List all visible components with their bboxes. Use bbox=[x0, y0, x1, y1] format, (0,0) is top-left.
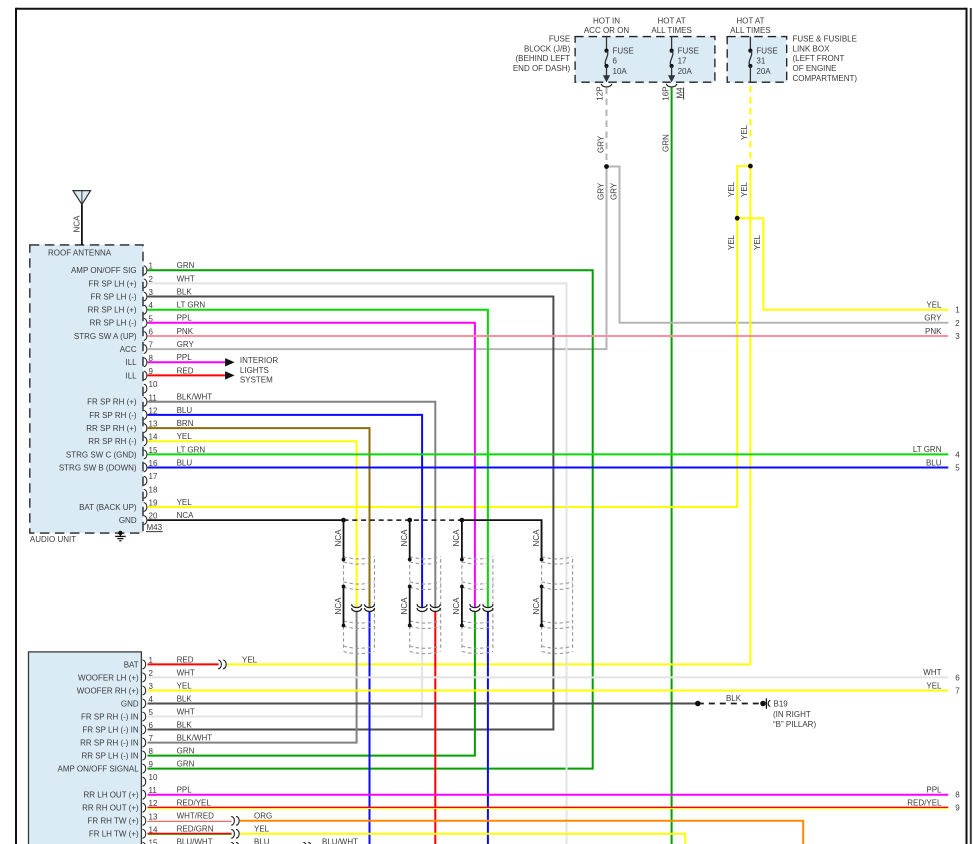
svg-text:RR SP LH (-): RR SP LH (-) bbox=[90, 319, 137, 328]
svg-text:FUSE & FUSIBLE: FUSE & FUSIBLE bbox=[793, 34, 857, 43]
svg-text:31: 31 bbox=[756, 57, 765, 66]
svg-text:NCA: NCA bbox=[452, 597, 461, 615]
svg-text:9: 9 bbox=[149, 367, 154, 376]
svg-text:BLU: BLU bbox=[177, 458, 193, 467]
svg-text:RED/YEL: RED/YEL bbox=[177, 799, 212, 808]
svg-text:6: 6 bbox=[613, 57, 618, 66]
svg-text:RR SP LH (+): RR SP LH (+) bbox=[88, 306, 137, 315]
svg-text:NCA: NCA bbox=[334, 529, 343, 547]
svg-text:RR RH OUT (+): RR RH OUT (+) bbox=[82, 804, 139, 813]
svg-text:RR SP LH (-) IN: RR SP LH (-) IN bbox=[81, 752, 138, 761]
svg-text:WHT/RED: WHT/RED bbox=[177, 812, 215, 821]
svg-text:7: 7 bbox=[149, 341, 154, 350]
svg-text:WOOFER RH (+): WOOFER RH (+) bbox=[77, 686, 139, 695]
svg-text:M43: M43 bbox=[147, 523, 163, 532]
svg-text:PPL: PPL bbox=[177, 353, 193, 362]
svg-text:FR SP LH (-) IN: FR SP LH (-) IN bbox=[82, 725, 139, 734]
svg-text:RED/GRN: RED/GRN bbox=[177, 825, 214, 834]
svg-text:GRY: GRY bbox=[177, 340, 195, 349]
svg-text:2: 2 bbox=[149, 275, 154, 284]
svg-text:17: 17 bbox=[149, 472, 158, 481]
svg-text:STRG SW A (UP): STRG SW A (UP) bbox=[74, 332, 137, 341]
svg-text:GRY: GRY bbox=[596, 182, 605, 200]
svg-text:GRY: GRY bbox=[609, 182, 618, 200]
svg-text:5: 5 bbox=[149, 314, 154, 323]
svg-text:ALL TIMES: ALL TIMES bbox=[651, 26, 691, 35]
svg-text:BAT (BACK UP): BAT (BACK UP) bbox=[79, 503, 137, 512]
svg-text:BRN: BRN bbox=[177, 419, 194, 428]
svg-text:AMP ON/OFF SIG: AMP ON/OFF SIG bbox=[71, 266, 137, 275]
svg-text:12: 12 bbox=[149, 406, 158, 415]
svg-text:COMPARTMENT): COMPARTMENT) bbox=[793, 74, 858, 83]
svg-text:6: 6 bbox=[149, 721, 154, 730]
svg-text:HOT AT: HOT AT bbox=[658, 16, 686, 25]
svg-text:(BEHIND LEFT: (BEHIND LEFT bbox=[516, 54, 571, 63]
svg-text:8: 8 bbox=[149, 747, 154, 756]
svg-text:NCA: NCA bbox=[400, 597, 409, 615]
svg-text:ACC: ACC bbox=[120, 345, 137, 354]
svg-text:GRY: GRY bbox=[924, 314, 942, 323]
svg-text:INTERIOR: INTERIOR bbox=[240, 356, 278, 365]
svg-text:YEL: YEL bbox=[740, 124, 749, 140]
svg-text:YEL: YEL bbox=[177, 498, 193, 507]
svg-text:5: 5 bbox=[955, 464, 960, 473]
svg-text:LT GRN: LT GRN bbox=[913, 445, 942, 454]
svg-text:8: 8 bbox=[149, 354, 154, 363]
svg-text:YEL: YEL bbox=[926, 681, 942, 690]
svg-text:YEL: YEL bbox=[242, 655, 258, 664]
svg-text:ILL: ILL bbox=[125, 371, 137, 380]
svg-text:GRN: GRN bbox=[177, 760, 195, 769]
svg-text:FR SP RH (-) IN: FR SP RH (-) IN bbox=[81, 712, 139, 721]
svg-text:AMP ON/OFF SIGNAL: AMP ON/OFF SIGNAL bbox=[57, 765, 139, 774]
svg-text:YEL: YEL bbox=[177, 432, 193, 441]
svg-text:3: 3 bbox=[149, 288, 154, 297]
svg-text:ROOF ANTENNA: ROOF ANTENNA bbox=[48, 249, 112, 258]
svg-text:7: 7 bbox=[149, 734, 154, 743]
svg-text:(LEFT FRONT: (LEFT FRONT bbox=[793, 54, 845, 63]
svg-text:LT GRN: LT GRN bbox=[177, 301, 206, 310]
svg-text:YEL: YEL bbox=[926, 301, 942, 310]
svg-text:BLK/WHT: BLK/WHT bbox=[177, 393, 213, 402]
svg-text:BLU: BLU bbox=[926, 458, 942, 467]
svg-text:FUSE: FUSE bbox=[678, 46, 699, 55]
svg-text:GRN: GRN bbox=[662, 134, 671, 152]
svg-text:FR SP RH (+): FR SP RH (+) bbox=[87, 398, 137, 407]
svg-text:RR SP RH (+): RR SP RH (+) bbox=[86, 424, 137, 433]
svg-text:NCA: NCA bbox=[532, 597, 541, 615]
svg-text:6: 6 bbox=[955, 673, 960, 682]
svg-text:ILL: ILL bbox=[125, 358, 137, 367]
svg-text:RED/YEL: RED/YEL bbox=[907, 799, 942, 808]
svg-text:NCA: NCA bbox=[400, 529, 409, 547]
svg-text:PNK: PNK bbox=[925, 327, 942, 336]
svg-text:BLK: BLK bbox=[726, 694, 742, 703]
svg-text:PPL: PPL bbox=[177, 314, 193, 323]
svg-text:BLK/WHT: BLK/WHT bbox=[177, 734, 213, 743]
svg-text:1: 1 bbox=[955, 306, 960, 315]
svg-text:FR RH TW (+): FR RH TW (+) bbox=[88, 817, 140, 826]
svg-text:19: 19 bbox=[149, 499, 158, 508]
svg-text:15: 15 bbox=[149, 446, 158, 455]
svg-text:FR SP LH (+): FR SP LH (+) bbox=[89, 279, 137, 288]
svg-text:GND: GND bbox=[121, 699, 139, 708]
svg-text:6: 6 bbox=[149, 328, 154, 337]
svg-text:7: 7 bbox=[955, 687, 960, 696]
svg-text:NCA: NCA bbox=[532, 529, 541, 547]
svg-text:5: 5 bbox=[149, 708, 154, 717]
svg-text:13: 13 bbox=[149, 420, 158, 429]
svg-text:FR SP LH (-): FR SP LH (-) bbox=[91, 292, 137, 301]
svg-text:PNK: PNK bbox=[177, 327, 194, 336]
svg-text:BLU: BLU bbox=[254, 838, 270, 844]
svg-text:YEL: YEL bbox=[727, 234, 736, 250]
svg-text:LIGHTS: LIGHTS bbox=[240, 366, 269, 375]
svg-text:BLK: BLK bbox=[177, 694, 193, 703]
svg-text:END OF DASH): END OF DASH) bbox=[513, 64, 571, 73]
svg-text:BLK: BLK bbox=[177, 287, 193, 296]
svg-text:10: 10 bbox=[149, 380, 158, 389]
svg-text:(IN RIGHT: (IN RIGHT bbox=[773, 710, 811, 719]
svg-text:9: 9 bbox=[149, 760, 154, 769]
svg-text:YEL: YEL bbox=[740, 181, 749, 197]
svg-text:GRN: GRN bbox=[177, 747, 195, 756]
svg-text:17: 17 bbox=[678, 57, 687, 66]
svg-text:BLU/WHT: BLU/WHT bbox=[322, 838, 358, 844]
svg-text:20A: 20A bbox=[678, 67, 693, 76]
svg-text:2: 2 bbox=[955, 319, 960, 328]
svg-text:15: 15 bbox=[149, 838, 158, 844]
svg-text:YEL: YEL bbox=[753, 234, 762, 250]
svg-text:RR SP RH (-) IN: RR SP RH (-) IN bbox=[80, 739, 139, 748]
svg-text:16P: 16P bbox=[662, 86, 671, 100]
svg-text:12P: 12P bbox=[596, 86, 605, 100]
svg-text:BAT: BAT bbox=[124, 660, 139, 669]
svg-text:NCA: NCA bbox=[177, 511, 195, 520]
svg-text:YEL: YEL bbox=[254, 825, 270, 834]
svg-text:RR LH OUT (+): RR LH OUT (+) bbox=[83, 791, 139, 800]
svg-text:20A: 20A bbox=[756, 67, 771, 76]
svg-text:HOT IN: HOT IN bbox=[593, 16, 620, 25]
svg-text:WOOFER LH (+): WOOFER LH (+) bbox=[78, 673, 139, 682]
svg-text:ORG: ORG bbox=[254, 812, 272, 821]
svg-text:STRG SW C (GND): STRG SW C (GND) bbox=[66, 450, 137, 459]
svg-text:FR SP RH (-): FR SP RH (-) bbox=[89, 411, 137, 420]
svg-text:YEL: YEL bbox=[177, 681, 193, 690]
svg-text:10: 10 bbox=[149, 773, 158, 782]
svg-text:BLU: BLU bbox=[177, 406, 193, 415]
svg-text:NCA: NCA bbox=[72, 215, 81, 233]
svg-text:FUSE: FUSE bbox=[613, 46, 634, 55]
svg-text:YEL: YEL bbox=[727, 181, 736, 197]
svg-text:OF ENGINE: OF ENGINE bbox=[793, 64, 837, 73]
svg-text:4: 4 bbox=[149, 301, 154, 310]
svg-text:PPL: PPL bbox=[177, 786, 193, 795]
svg-text:HOT AT: HOT AT bbox=[736, 16, 764, 25]
svg-text:RR SP RH (-): RR SP RH (-) bbox=[88, 437, 137, 446]
svg-text:11: 11 bbox=[149, 393, 158, 402]
svg-text:FUSE: FUSE bbox=[756, 46, 777, 55]
svg-text:BLU/WHT: BLU/WHT bbox=[177, 838, 213, 844]
svg-text:FUSE: FUSE bbox=[549, 34, 570, 43]
svg-text:LT GRN: LT GRN bbox=[177, 445, 206, 454]
svg-text:ALL TIMES: ALL TIMES bbox=[730, 26, 770, 35]
svg-text:“B” PILLAR): “B” PILLAR) bbox=[773, 720, 816, 729]
svg-text:B19: B19 bbox=[774, 699, 789, 708]
svg-text:NCA: NCA bbox=[334, 597, 343, 615]
svg-text:9: 9 bbox=[955, 804, 960, 813]
svg-text:3: 3 bbox=[955, 332, 960, 341]
svg-text:16: 16 bbox=[149, 459, 158, 468]
svg-text:8: 8 bbox=[955, 791, 960, 800]
svg-text:SYSTEM: SYSTEM bbox=[240, 376, 273, 385]
svg-text:BLK: BLK bbox=[177, 720, 193, 729]
svg-text:GRY: GRY bbox=[596, 135, 605, 153]
svg-text:WHT: WHT bbox=[923, 668, 941, 677]
svg-text:WHT: WHT bbox=[177, 274, 195, 283]
svg-text:FR LH TW (+): FR LH TW (+) bbox=[89, 830, 139, 839]
svg-text:WHT: WHT bbox=[177, 668, 195, 677]
svg-text:RED: RED bbox=[177, 366, 194, 375]
svg-text:18: 18 bbox=[149, 485, 158, 494]
svg-text:ACC OR ON: ACC OR ON bbox=[584, 26, 630, 35]
svg-text:GND: GND bbox=[119, 516, 137, 525]
svg-text:10A: 10A bbox=[613, 67, 628, 76]
svg-text:NCA: NCA bbox=[452, 529, 461, 547]
svg-text:RED: RED bbox=[177, 655, 194, 664]
svg-text:WHT: WHT bbox=[177, 707, 195, 716]
svg-text:20: 20 bbox=[149, 512, 158, 521]
svg-text:BLOCK (J/B): BLOCK (J/B) bbox=[524, 44, 571, 53]
svg-text:PPL: PPL bbox=[926, 786, 942, 795]
svg-text:14: 14 bbox=[149, 433, 158, 442]
svg-text:4: 4 bbox=[955, 450, 960, 459]
svg-text:1: 1 bbox=[149, 262, 154, 271]
svg-text:LINK BOX: LINK BOX bbox=[793, 44, 831, 53]
svg-text:GRN: GRN bbox=[177, 261, 195, 270]
svg-text:STRG SW B (DOWN): STRG SW B (DOWN) bbox=[59, 463, 137, 472]
svg-text:AUDIO UNIT: AUDIO UNIT bbox=[30, 535, 76, 544]
